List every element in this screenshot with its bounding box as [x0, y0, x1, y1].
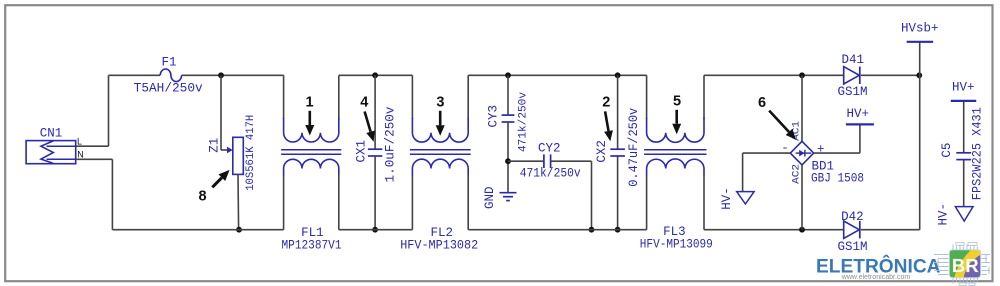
pointer label 1 [305, 95, 313, 111]
value 10S561K 417H [245, 115, 257, 191]
wire fuse to FL1 [182, 74, 284, 76]
wire CY3 upper [507, 75, 509, 115]
label CY3 [486, 105, 500, 128]
pointer arrow 5 [672, 110, 681, 134]
terminal HVsb+ [907, 41, 934, 43]
pin N label [77, 150, 84, 160]
connector CN1 body [26, 141, 76, 164]
fuse F1 [160, 69, 181, 82]
svg-text:8: 8 [198, 189, 206, 205]
capacitor CX1 [368, 149, 382, 156]
label D42 [841, 210, 864, 224]
wire CX1 lower [374, 156, 376, 230]
wire D42 right [861, 229, 920, 231]
pointer arrow 8 [212, 170, 229, 187]
wire FL1 left bottom [283, 175, 285, 230]
label BD1 [811, 159, 834, 173]
svg-text:2: 2 [602, 95, 610, 111]
label CX2 [595, 140, 609, 163]
svg-text:www.eletronicabr.com: www.eletronicabr.com [841, 274, 911, 281]
svg-text:HV+: HV+ [846, 107, 869, 121]
junction D41 HVsb [916, 72, 922, 78]
junction BD1 AC1 [799, 72, 805, 78]
wire Z1 top [221, 75, 229, 150]
value 471k/250v CY3 [518, 92, 530, 152]
value T5AH/250v [134, 82, 204, 96]
value HFV-MP13082 [400, 238, 478, 252]
svg-text:AC2: AC2 [791, 164, 802, 184]
choke FL2 [410, 118, 471, 176]
wire bottom rail FL2-FL3 [468, 229, 646, 231]
value 1.0uF/250v [384, 106, 398, 183]
svg-text:GBJ 1508: GBJ 1508 [811, 172, 864, 186]
svg-text:BR: BR [952, 255, 979, 276]
wire BD1 minus out [743, 153, 791, 192]
wire bottom rail FL3-D42 [704, 229, 844, 231]
value MP12387V1 [282, 238, 342, 252]
pointer label 6 [758, 95, 766, 111]
pointer arrow 2 [604, 111, 613, 141]
wire C5 upper [963, 101, 965, 153]
label HVsb+ [901, 22, 939, 36]
pointer arrow 1 [305, 111, 314, 136]
svg-text:MP12387V1: MP12387V1 [282, 238, 342, 252]
wire CY3 lower [507, 122, 509, 193]
wire Z1 bottom [237, 174, 240, 229]
junction CX1 top [372, 72, 378, 78]
pointer label 5 [673, 94, 681, 110]
svg-text:471k/250v: 471k/250v [520, 167, 581, 181]
svg-text:D42: D42 [841, 210, 864, 224]
svg-text:HV+: HV+ [952, 80, 975, 94]
wire FL1 right top [338, 75, 340, 119]
label HV+ right [952, 80, 975, 94]
wire FL3 left bottom [646, 175, 648, 230]
svg-text:C5: C5 [940, 143, 954, 158]
svg-text:CN1: CN1 [40, 126, 63, 140]
svg-text:GS1M: GS1M [837, 85, 867, 99]
svg-text:1: 1 [305, 95, 313, 111]
wire bottom rail FL1-FL2 [339, 229, 413, 231]
value 471k/250v CY2 [520, 167, 581, 181]
junction BD1 AC2 [799, 227, 805, 233]
value HFV-MP13099 [640, 237, 713, 251]
junction CY3 top [505, 72, 511, 78]
label AC2 [791, 164, 802, 184]
choke FL1 [281, 118, 341, 176]
label FL1 [301, 226, 324, 240]
varistor Z1 body [233, 137, 244, 174]
junction CX2 top [615, 72, 621, 78]
value FPS2W225 X431 [971, 107, 985, 200]
diode D42 [844, 221, 860, 238]
label BD1 minus [781, 141, 789, 155]
svg-text:CY3: CY3 [486, 105, 500, 128]
svg-text:1.0uF/250v: 1.0uF/250v [384, 106, 398, 183]
svg-text:T5AH/250v: T5AH/250v [134, 82, 204, 96]
label HV- left [720, 187, 734, 210]
svg-text:L: L [77, 137, 82, 147]
label CY2 [538, 141, 561, 155]
wire top rail FL1-FL2 [339, 74, 413, 76]
svg-text:FPS2W225 X431: FPS2W225 X431 [971, 107, 985, 200]
svg-text:471k/250v: 471k/250v [518, 92, 530, 152]
label HV- right [937, 203, 951, 226]
power flag HV- right [955, 207, 973, 222]
wire L riser up [108, 75, 110, 146]
diode D41 [844, 67, 860, 84]
wire top rail FL2-FL3 [468, 74, 646, 76]
capacitor CY3 [502, 115, 515, 122]
wire N descender [111, 159, 113, 229]
label FL2 [431, 226, 454, 240]
wire HVsb vertical [919, 42, 921, 230]
wire CY2 left [508, 160, 544, 162]
ground GND [500, 193, 517, 201]
wire BD1 plus out [814, 124, 860, 153]
svg-text:6: 6 [758, 95, 766, 111]
svg-text:HVsb+: HVsb+ [901, 22, 939, 36]
svg-text:4: 4 [360, 95, 368, 111]
label BD1 plus [817, 143, 825, 157]
value GBJ 1508 [811, 172, 864, 186]
label D41 [842, 53, 865, 67]
wire FL3 left top [646, 75, 648, 119]
label FL3 [663, 225, 686, 239]
label HV+ mid [846, 107, 869, 121]
junction CX1 bottom [372, 227, 378, 233]
svg-text:CX1: CX1 [354, 140, 368, 163]
wire FL2 right bottom [467, 175, 469, 230]
junction CX2 bottom [615, 227, 621, 233]
value GS1M D41 [837, 85, 867, 99]
wire bottom rail left [112, 229, 283, 231]
wire FL1 right bottom [338, 175, 340, 230]
wire BD1 bottom [801, 165, 803, 230]
junction Z1 bottom [236, 227, 242, 233]
pointer label 8 [198, 189, 206, 205]
svg-text:+: + [817, 143, 825, 157]
terminal HV+ mid [846, 123, 874, 125]
wire top rail to fuse [109, 74, 161, 76]
junction CY3/CY2/GND [505, 158, 511, 164]
label AC1 [791, 121, 802, 141]
label CX1 [354, 140, 368, 163]
pointer label 4 [360, 95, 368, 111]
wire FL1 left top [283, 75, 285, 119]
pointer label 2 [602, 95, 610, 111]
pointer label 3 [436, 95, 444, 111]
svg-text:D41: D41 [842, 53, 865, 67]
power flag HV- left [737, 192, 754, 204]
label Z1 [207, 138, 221, 153]
wire FL2 right top [467, 75, 469, 119]
wire FL3 right top [703, 75, 705, 119]
wire C5 lower [963, 160, 965, 207]
wire top rail FL3-D41 [704, 74, 844, 76]
value 0.47uF/250v [627, 107, 641, 186]
wire CY2 right [551, 161, 592, 230]
wire N pin [76, 158, 112, 160]
svg-text:N: N [77, 150, 84, 160]
wire D41 right [861, 74, 920, 76]
svg-text:0.47uF/250v: 0.47uF/250v [627, 107, 641, 186]
junction CY2 bottom [589, 227, 595, 233]
wire FL2 left top [411, 75, 413, 119]
junction fuse/Z1 [218, 72, 224, 78]
pointer arrow 3 [436, 111, 445, 136]
wire BD1 top [801, 75, 803, 141]
svg-text:GS1M: GS1M [837, 240, 867, 254]
svg-text:GND: GND [483, 186, 497, 209]
label GND [483, 186, 497, 209]
wire FL3 right bottom [703, 175, 705, 230]
label C5 [940, 143, 954, 158]
Z1 pointer arrowhead [227, 147, 233, 153]
svg-text:F1: F1 [161, 55, 176, 69]
svg-text:HFV-MP13099: HFV-MP13099 [640, 237, 713, 251]
pointer arrow 6 [769, 111, 796, 140]
svg-text:3: 3 [436, 95, 444, 111]
svg-text:HV-: HV- [937, 203, 951, 226]
svg-text:HFV-MP13082: HFV-MP13082 [400, 238, 478, 252]
terminal HV+ right [951, 100, 977, 102]
wire L pin to riser [76, 145, 109, 147]
value GS1M D42 [837, 240, 867, 254]
pointer arrow 4 [365, 112, 375, 142]
pin L label [77, 137, 82, 147]
svg-text:CY2: CY2 [538, 141, 561, 155]
wire CX2 lower [617, 156, 619, 230]
svg-text:HV-: HV- [720, 187, 734, 210]
wire FL2 left bottom [411, 175, 413, 230]
label CN1 [40, 126, 63, 140]
bridge BD1 body [790, 141, 813, 165]
capacitor CY2 [544, 154, 551, 168]
svg-text:CX2: CX2 [595, 140, 609, 163]
label F1 [161, 55, 176, 69]
svg-text:10S561K 417H: 10S561K 417H [245, 115, 257, 191]
svg-text:Z1: Z1 [207, 138, 221, 153]
wire CX2 upper [617, 75, 619, 149]
svg-text:5: 5 [673, 94, 681, 110]
logo ELETRONICA BR [816, 243, 990, 286]
choke FL3 [644, 118, 706, 176]
capacitor CX2 [610, 149, 625, 156]
wire CX1 upper [374, 75, 376, 149]
capacitor C5 [956, 153, 971, 160]
